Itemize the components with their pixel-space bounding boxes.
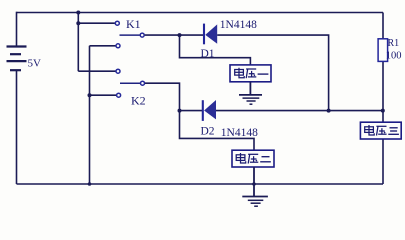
wire K1 pole to D1: [145, 34, 203, 36]
wire bottom rail: [17, 183, 384, 185]
junction node K2/D2/voltmeter2: [178, 109, 182, 113]
switch K2 blade wire: [120, 82, 140, 84]
diode D1 cathode bar: [203, 24, 205, 45]
junction bus A / K1 feed: [76, 21, 80, 25]
ground GND1: [239, 95, 262, 104]
wire right rail: [382, 13, 384, 185]
switch K1 blade wire: [120, 34, 140, 36]
wire K2 lower contact feed: [90, 94, 117, 96]
resistor R1 body: [378, 39, 388, 62]
wire left rail upper (battery +): [16, 12, 18, 47]
battery BT1 5V: [7, 47, 27, 71]
wire left rail lower (battery -): [16, 70, 18, 184]
label 电压一: [235, 68, 269, 78]
diode D2 cathode bar: [202, 100, 204, 121]
K2 lower contact circle: [117, 93, 121, 97]
wire voltmeter1 to ground: [249, 82, 251, 95]
junction bus B / K2 lower feed: [88, 93, 92, 97]
wire K2 pole to D2 node: [145, 83, 180, 110]
junction voltmeter2 stem / bottom rail: [252, 182, 256, 186]
junction top rail / bus A: [76, 11, 80, 15]
K1 lower contact circle: [116, 44, 120, 48]
svg-text:1N4148: 1N4148: [220, 19, 257, 31]
wire vertical bus A from top rail: [77, 13, 79, 72]
ground GND2: [242, 197, 268, 207]
diode D1 triangle: [205, 24, 217, 43]
junction node K1/D1/voltmeter1: [178, 33, 182, 37]
wire D2 output: [216, 110, 383, 112]
svg-text:D2: D2: [201, 126, 215, 138]
svg-text:K2: K2: [131, 94, 146, 108]
wire vertical bus B to bottom rail: [89, 46, 91, 184]
svg-text:1N4148: 1N4148: [221, 127, 258, 139]
wire D1 output: [217, 35, 328, 111]
wire branch to voltmeter1: [180, 35, 251, 65]
wire branch to voltmeter2: [180, 111, 255, 151]
label 电压三: [365, 125, 399, 136]
diode D2 triangle: [204, 100, 216, 119]
switch K1 pole circle: [140, 33, 144, 37]
wire K1 upper contact feed: [78, 22, 115, 24]
label 电压二: [236, 153, 271, 164]
junction D2 output / right rail: [381, 109, 385, 113]
wire into D2: [180, 110, 203, 112]
svg-text:5V: 5V: [28, 58, 42, 70]
voltmeter box 2 (电压二): [232, 150, 274, 167]
junction bus B / bottom rail: [88, 182, 92, 186]
voltmeter box 1 (电压一): [230, 65, 271, 82]
junction D1 branch / D2 output: [327, 109, 331, 113]
wire voltmeter2 to ground: [253, 167, 255, 196]
K1 upper contact circle: [115, 21, 119, 25]
voltmeter box 3 (电压三): [360, 122, 401, 139]
wire top rail: [17, 12, 384, 14]
wire K2 upper contact feed: [78, 70, 115, 72]
wire K1 lower contact feed: [90, 45, 116, 47]
switch K2 pole circle: [141, 81, 145, 85]
svg-text:K1: K1: [126, 17, 141, 31]
svg-text:R1: R1: [388, 38, 400, 49]
svg-text:D1: D1: [201, 48, 215, 60]
K2 upper contact circle: [116, 69, 120, 73]
svg-text:100: 100: [386, 51, 402, 62]
